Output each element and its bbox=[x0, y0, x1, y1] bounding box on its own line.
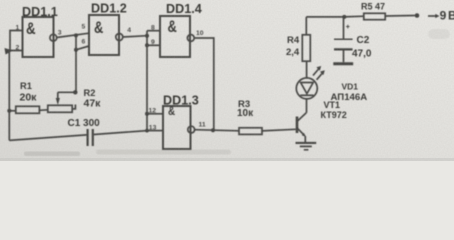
svg-text:10: 10 bbox=[196, 30, 204, 37]
pin 13 label bbox=[149, 125, 157, 132]
wire R4 top bbox=[305, 17, 307, 35]
inversion bubble DD1.2 output bbox=[116, 34, 123, 41]
pin 9 label bbox=[151, 39, 155, 46]
ampersand DD1.2 bbox=[94, 20, 104, 38]
wire R5 to terminal bbox=[385, 15, 415, 18]
wire LED anode bbox=[306, 61, 308, 78]
svg-text:6: 6 bbox=[82, 39, 86, 46]
pin 11 label bbox=[199, 122, 206, 129]
junction dot pin13 corner bbox=[145, 129, 149, 133]
wire node B vertical bbox=[75, 35, 77, 92]
node junction dot bbox=[145, 34, 149, 38]
svg-text:R1: R1 bbox=[20, 81, 32, 91]
scan smudge bottom middle bbox=[96, 150, 231, 155]
noise overlay bbox=[0, 0, 454, 161]
wire bottom rail right bbox=[94, 131, 147, 135]
wire DD1.3 output to R3 bbox=[195, 130, 239, 131]
scan smudge bottom left bbox=[24, 152, 80, 157]
inversion bubble DD1.1 output bbox=[50, 34, 57, 41]
pin 2 label bbox=[16, 45, 20, 52]
label 9 V bbox=[440, 8, 454, 22]
polarity plus C2 bbox=[346, 24, 350, 31]
wire DD1.1 input tie bbox=[10, 31, 23, 51]
wire R1 to R2 bbox=[39, 109, 47, 112]
transistor VT1 bbox=[296, 113, 307, 143]
label VT1 bbox=[324, 100, 341, 110]
trimmer R2 bbox=[48, 105, 72, 112]
svg-text:5: 5 bbox=[82, 24, 86, 31]
gate DD1.4 bbox=[160, 16, 190, 57]
svg-text:9: 9 bbox=[151, 39, 155, 46]
label DD1.3 bbox=[163, 93, 199, 107]
wiper arrow R2 bbox=[56, 92, 76, 105]
node junction dot C2 bbox=[342, 15, 346, 19]
svg-text:8: 8 bbox=[151, 25, 155, 32]
inversion bubble DD1.3 output bbox=[188, 126, 195, 133]
svg-text:20к: 20к bbox=[20, 91, 38, 103]
value label 2,4 bbox=[286, 47, 300, 58]
resistor R5 bbox=[364, 13, 385, 19]
svg-text:R5 47: R5 47 bbox=[361, 1, 385, 11]
pin 10 label bbox=[196, 30, 204, 37]
terminal dot bbox=[415, 13, 420, 18]
svg-text:3: 3 bbox=[58, 30, 62, 37]
node junction dot pin12 bbox=[145, 112, 149, 116]
svg-text:КТ972: КТ972 bbox=[321, 110, 347, 120]
gate DD1.3 bbox=[163, 106, 191, 149]
wire R2 right terminal bbox=[72, 105, 75, 109]
label AP146A bbox=[331, 92, 368, 103]
LED VD1 bbox=[296, 78, 317, 99]
svg-text:C1 300: C1 300 bbox=[68, 118, 101, 129]
value label 47,0 bbox=[352, 48, 372, 59]
wire left rail vertical bbox=[8, 51, 10, 141]
svg-text:&: & bbox=[168, 105, 175, 118]
svg-text:&: & bbox=[26, 20, 36, 39]
capacitor C2 bbox=[333, 17, 353, 64]
pin 6 label bbox=[82, 39, 86, 46]
pin 4 label bbox=[127, 27, 131, 34]
svg-text:R4: R4 bbox=[287, 35, 300, 46]
svg-text:DD1.1: DD1.1 bbox=[22, 5, 58, 19]
label DD1.1 bbox=[22, 5, 58, 19]
pin 5 label bbox=[82, 24, 86, 31]
emission arrow bbox=[317, 70, 325, 80]
svg-text:4: 4 bbox=[127, 27, 131, 34]
svg-text:В: В bbox=[448, 8, 454, 22]
label VD1 bbox=[342, 82, 359, 92]
svg-text:DD1.4: DD1.4 bbox=[166, 2, 202, 16]
pin 12 label bbox=[149, 107, 157, 114]
pin 8 label bbox=[151, 25, 155, 32]
label C2 bbox=[357, 35, 370, 46]
label C1 300 bbox=[68, 118, 101, 129]
svg-text:47,0: 47,0 bbox=[352, 48, 372, 59]
wire DD1.1 output bbox=[57, 33, 89, 37]
svg-text:&: & bbox=[168, 19, 178, 37]
wire to DD1.4 pin 8 bbox=[147, 30, 160, 32]
svg-text:10к: 10к bbox=[237, 108, 254, 119]
pin 3 label bbox=[58, 30, 62, 37]
node junction dot bbox=[74, 48, 78, 52]
label R2 bbox=[84, 88, 96, 98]
svg-text:2,4: 2,4 bbox=[286, 47, 300, 58]
wire to DD1.4 pin 9 bbox=[147, 44, 160, 46]
gate DD1.2 bbox=[89, 15, 119, 55]
svg-text:C2: C2 bbox=[357, 35, 370, 46]
value label 10k bbox=[237, 108, 254, 119]
wire to DD1.3 pin 13 bbox=[147, 130, 163, 132]
svg-text:11: 11 bbox=[199, 122, 206, 129]
resistor R3 bbox=[239, 128, 262, 135]
junction blob at input tie bbox=[5, 48, 14, 55]
resistor R1 bbox=[16, 106, 40, 113]
value label 47k bbox=[84, 97, 102, 109]
emission arrow bbox=[313, 66, 321, 76]
ampersand DD1.3 bbox=[168, 105, 175, 118]
wire top rail bbox=[306, 15, 364, 18]
wire R3 to base bbox=[262, 129, 296, 131]
label R4 bbox=[287, 35, 300, 46]
label KT972 bbox=[321, 110, 347, 120]
bottom edge band bbox=[0, 158, 454, 161]
wire rail to R1 bbox=[9, 110, 16, 112]
value label R3 bbox=[238, 99, 250, 110]
scan smudge top right bbox=[428, 29, 450, 39]
label R5 47 bbox=[361, 1, 385, 11]
svg-text:АП146А: АП146А bbox=[331, 92, 368, 103]
wire bottom rail left bbox=[9, 135, 86, 141]
wire to DD1.3 pin 12 bbox=[147, 113, 163, 115]
resistor R4 bbox=[302, 35, 310, 61]
svg-text:&: & bbox=[94, 20, 104, 38]
svg-text:9: 9 bbox=[440, 8, 447, 22]
node junction dot bbox=[74, 33, 78, 37]
junction blob wiper bbox=[73, 90, 77, 94]
label R1 bbox=[20, 81, 32, 91]
ground symbol bbox=[296, 143, 317, 150]
node junction dot bbox=[211, 128, 215, 132]
gate DD1.1 bbox=[23, 17, 54, 57]
svg-text:+: + bbox=[346, 24, 350, 31]
label DD1.2 bbox=[91, 1, 127, 15]
svg-text:DD1.2: DD1.2 bbox=[91, 1, 127, 15]
svg-text:47к: 47к bbox=[84, 97, 102, 109]
pin 1 label bbox=[16, 25, 20, 32]
wire DD1.4 output to vertical bbox=[194, 38, 214, 130]
wire DD1.2 output bbox=[123, 36, 147, 37]
ampersand DD1.4 bbox=[168, 19, 178, 37]
inversion bubble DD1.4 output bbox=[187, 35, 194, 42]
ampersand DD1.1 bbox=[26, 20, 36, 39]
wire collector bbox=[306, 99, 308, 113]
svg-text:VD1: VD1 bbox=[342, 82, 359, 92]
label DD1.4 bbox=[166, 2, 202, 16]
value label 20k bbox=[20, 91, 38, 103]
node junction dot R1 bbox=[7, 109, 11, 113]
paper background bbox=[0, 0, 454, 161]
node junction dot bbox=[145, 43, 149, 47]
wire node C vertical bbox=[146, 31, 148, 131]
capacitor C1 bbox=[88, 129, 93, 146]
arrow to supply bbox=[428, 14, 440, 18]
wire to DD1.2 pin 6 bbox=[76, 46, 89, 50]
